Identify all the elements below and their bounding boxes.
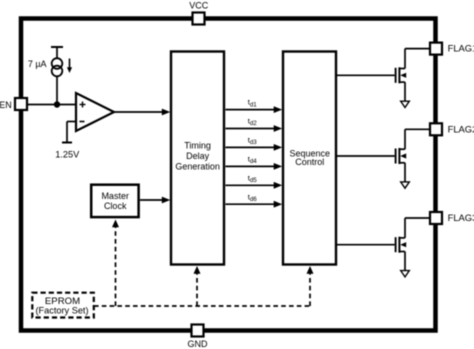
svg-text:(Factory Set): (Factory Set) <box>35 306 88 316</box>
svg-text:VCC: VCC <box>189 1 209 11</box>
svg-text:FLAG1: FLAG1 <box>448 43 474 54</box>
svg-text:Master: Master <box>101 191 129 201</box>
svg-text:Control: Control <box>295 157 324 167</box>
svg-text:7 µA: 7 µA <box>28 59 47 69</box>
svg-text:Timing: Timing <box>184 141 211 151</box>
svg-text:1.25V: 1.25V <box>55 150 80 160</box>
svg-text:Clock: Clock <box>104 201 127 211</box>
svg-text:EN: EN <box>0 100 12 110</box>
svg-text:Generation: Generation <box>175 161 220 171</box>
svg-text:FLAG3: FLAG3 <box>448 212 474 223</box>
svg-text:GND: GND <box>188 339 209 349</box>
svg-text:FLAG2: FLAG2 <box>448 123 474 134</box>
svg-text:Delay: Delay <box>186 151 210 161</box>
